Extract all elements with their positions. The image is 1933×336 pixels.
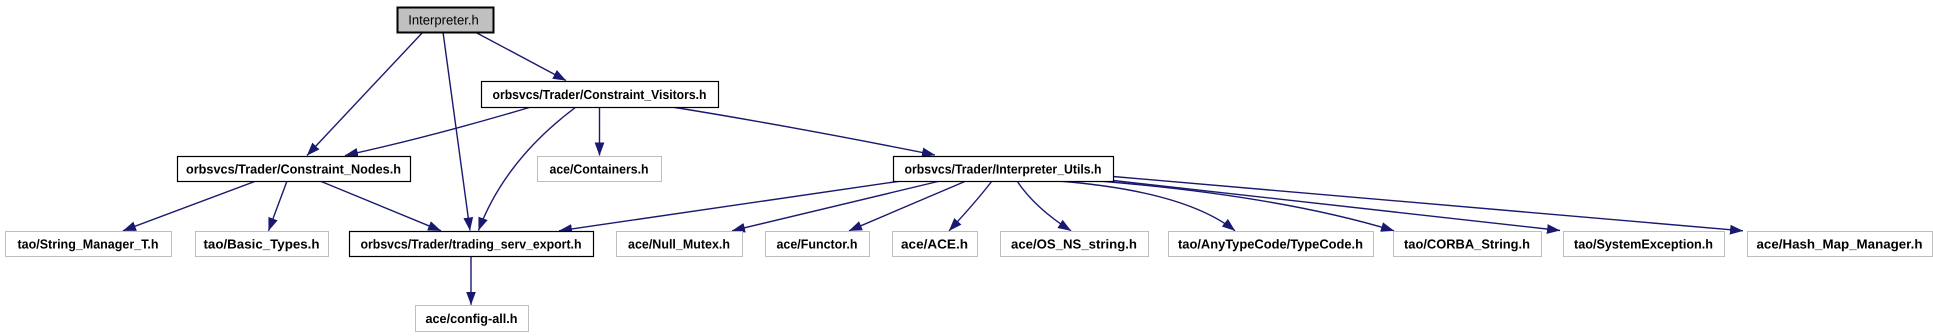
node orbsvcs/Trader/Constraint_Nodes.h	[178, 157, 411, 182]
node ace/Hash_Map_Manager.h	[1748, 232, 1933, 257]
edge: Constraint_Visitors.h -> Interpreter_Utils.h	[672, 107, 935, 155]
svg-text:tao/Basic_Types.h: tao/Basic_Types.h	[204, 236, 320, 251]
node orbsvcs/Trader/trading_serv_export.h	[350, 232, 594, 257]
edge: Constraint_Visitors.h -> Constraint_Nodes.h	[345, 107, 531, 156]
edge: Interpreter_Utils.h -> SystemException.h	[1113, 181, 1560, 231]
edge: Constraint_Nodes.h -> String_Manager_T.h	[123, 181, 256, 231]
node tao/Basic_Types.h	[196, 232, 329, 257]
edge: Interpreter_Utils.h -> Functor.h	[849, 181, 966, 231]
svg-text:ace/Null_Mutex.h: ace/Null_Mutex.h	[628, 236, 730, 251]
node ace/ACE.h	[893, 232, 978, 257]
edge: trading_serv_export.h -> config-all.h	[470, 257, 472, 305]
edge: Interpreter_Utils.h -> Hash_Map_Manager.h	[1113, 177, 1743, 231]
svg-text:tao/AnyTypeCode/TypeCode.h: tao/AnyTypeCode/TypeCode.h	[1178, 236, 1363, 251]
node ace/Null_Mutex.h	[617, 232, 743, 257]
edge: Interpreter_Utils.h -> ACE.h	[949, 181, 992, 231]
svg-text:ace/Containers.h: ace/Containers.h	[550, 161, 649, 176]
svg-text:orbsvcs/Trader/trading_serv_ex: orbsvcs/Trader/trading_serv_export.h	[361, 236, 582, 251]
edge: Constraint_Nodes.h -> Basic_Types.h	[269, 181, 288, 231]
node ace/config-all.h	[416, 306, 529, 332]
node ace/Containers.h	[538, 157, 662, 182]
edge: Interpreter_Utils.h -> OS_NS_string.h	[1017, 181, 1071, 231]
node ace/OS_NS_string.h	[1001, 232, 1149, 257]
edge: Interpreter_Utils.h -> TypeCode.h	[1058, 181, 1235, 231]
svg-text:tao/SystemException.h: tao/SystemException.h	[1574, 236, 1713, 251]
node ace/Functor.h	[766, 232, 870, 257]
edge: Interpreter.h -> Constraint_Visitors.h	[475, 32, 566, 81]
svg-text:orbsvcs/Trader/Interpreter_Uti: orbsvcs/Trader/Interpreter_Utils.h	[905, 161, 1102, 176]
svg-text:ace/Functor.h: ace/Functor.h	[777, 236, 858, 251]
svg-text:ace/config-all.h: ace/config-all.h	[426, 311, 518, 326]
node orbsvcs/Trader/Interpreter_Utils.h	[894, 157, 1114, 182]
svg-text:orbsvcs/Trader/Constraint_Visi: orbsvcs/Trader/Constraint_Visitors.h	[493, 87, 707, 102]
svg-text:tao/String_Manager_T.h: tao/String_Manager_T.h	[18, 236, 159, 251]
node Interpreter.h (root)	[398, 8, 494, 33]
edge: Interpreter_Utils.h -> Null_Mutex.h	[732, 181, 940, 231]
svg-text:Interpreter.h: Interpreter.h	[408, 12, 479, 27]
svg-text:tao/CORBA_String.h: tao/CORBA_String.h	[1404, 236, 1530, 251]
node tao/CORBA_String.h	[1394, 232, 1542, 257]
edge: Interpreter_Utils.h -> trading_serv_export.h	[559, 181, 901, 231]
edge: Constraint_Nodes.h -> trading_serv_export.h	[320, 181, 441, 231]
edge: Constraint_Visitors.h -> trading_serv_export.h	[479, 107, 577, 231]
edge: Interpreter_Utils.h -> CORBA_String.h	[1099, 181, 1394, 231]
node tao/AnyTypeCode/TypeCode.h	[1169, 232, 1374, 257]
svg-text:ace/Hash_Map_Manager.h: ace/Hash_Map_Manager.h	[1757, 236, 1923, 251]
svg-text:orbsvcs/Trader/Constraint_Node: orbsvcs/Trader/Constraint_Nodes.h	[186, 161, 401, 176]
edge: Interpreter.h -> Constraint_Nodes.h	[307, 32, 423, 156]
node tao/SystemException.h	[1564, 232, 1725, 257]
svg-text:ace/ACE.h: ace/ACE.h	[901, 236, 968, 251]
svg-text:ace/OS_NS_string.h: ace/OS_NS_string.h	[1011, 236, 1137, 251]
node tao/String_Manager_T.h	[6, 232, 172, 257]
edge: Interpreter.h -> trading_serv_export.h	[443, 32, 470, 231]
edge: Constraint_Visitors.h -> Containers.h	[599, 107, 601, 156]
node orbsvcs/Trader/Constraint_Visitors.h	[482, 82, 719, 108]
